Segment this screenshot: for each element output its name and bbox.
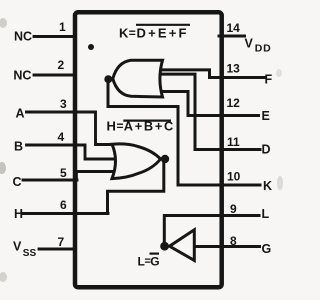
svg-text:V: V [13,240,22,254]
svg-text:9: 9 [230,202,237,216]
svg-text:C: C [13,175,22,189]
svg-text:10: 10 [227,170,241,184]
svg-text:8: 8 [230,234,237,248]
svg-text:14: 14 [227,21,241,35]
svg-text:=: = [129,26,136,40]
svg-text:H: H [107,119,116,134]
svg-text:2: 2 [58,58,65,72]
svg-text:13: 13 [227,62,241,76]
svg-text:D+E+F: D+E+F [137,26,189,41]
svg-text:K: K [263,179,272,193]
svg-text:B: B [14,140,23,154]
svg-text:3: 3 [60,97,67,111]
svg-text:NC: NC [14,30,32,44]
svg-text:A: A [16,107,25,121]
svg-text:4: 4 [58,130,65,144]
svg-text:H: H [14,207,23,221]
svg-text:7: 7 [58,235,65,249]
svg-text:F: F [265,73,273,87]
svg-text:D: D [262,143,271,157]
svg-text:=: = [117,119,124,133]
svg-text:E: E [262,109,270,123]
svg-text:L: L [262,207,270,221]
svg-text:1: 1 [59,20,66,34]
svg-text:G: G [262,242,272,256]
svg-text:12: 12 [227,96,241,110]
svg-text:V: V [245,37,254,51]
svg-text:11: 11 [227,135,240,149]
svg-text:NC: NC [13,69,31,83]
svg-text:K: K [119,26,129,41]
svg-text:G: G [150,255,159,269]
svg-text:6: 6 [60,198,67,212]
svg-text:DD: DD [255,43,272,55]
svg-text:SS: SS [23,248,37,259]
svg-text:5: 5 [60,166,67,180]
